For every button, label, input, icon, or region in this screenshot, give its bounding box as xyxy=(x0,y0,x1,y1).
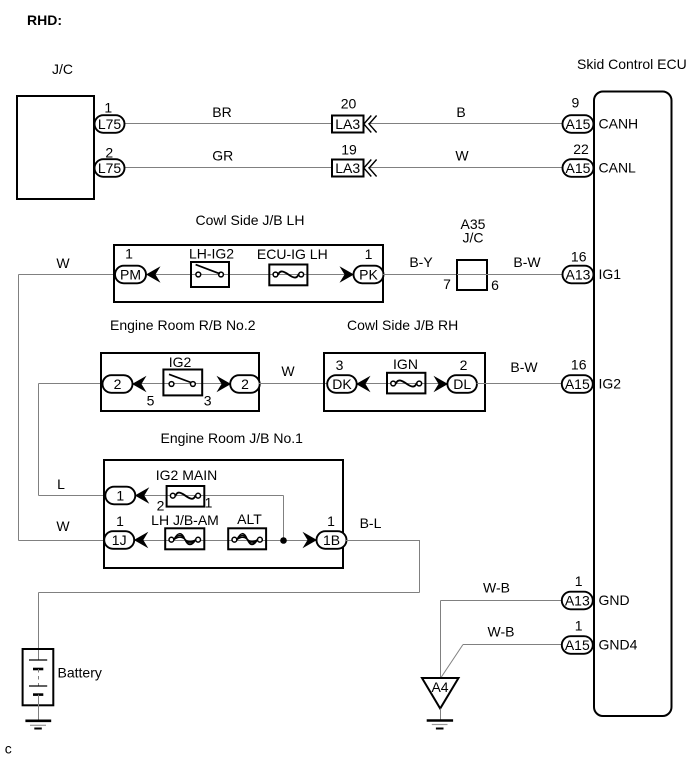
svg-text:ECU-IG LH: ECU-IG LH xyxy=(257,246,328,262)
pin number 1 (PM) xyxy=(125,246,133,262)
Engine Room J/B No.1 box xyxy=(104,460,343,568)
svg-text:22: 22 xyxy=(573,141,589,157)
wire B-Y (PK to A35) xyxy=(383,274,457,276)
fuse ECU-IG LH xyxy=(269,265,307,286)
title Cowl Side J/B LH xyxy=(196,212,305,228)
ECU terminal label GND xyxy=(599,592,630,608)
connector 1 (J/B No.1 row 1) xyxy=(105,487,135,505)
svg-text:PM: PM xyxy=(120,266,141,282)
wire label L xyxy=(57,476,65,492)
wire B-W (DL to A15) xyxy=(477,383,563,385)
label IG2 MAIN xyxy=(156,467,217,483)
wire W-B (A4 to A13 GND) xyxy=(441,601,563,678)
svg-text:1: 1 xyxy=(205,495,213,511)
svg-text:5: 5 xyxy=(147,393,155,409)
svg-text:A15: A15 xyxy=(566,116,591,132)
wire GR (L75 to LA3) CANL xyxy=(124,167,332,169)
Cowl Side J/B LH box xyxy=(114,245,383,302)
Cowl Side J/B RH box xyxy=(324,353,485,411)
svg-text:1: 1 xyxy=(365,246,373,262)
svg-text:GND: GND xyxy=(599,592,630,608)
pin number 1 (PK) xyxy=(365,246,373,262)
svg-text:1: 1 xyxy=(575,573,583,589)
svg-text:2: 2 xyxy=(105,145,113,161)
pin number 1 (1J) xyxy=(116,513,124,529)
svg-text:LA3: LA3 xyxy=(335,160,360,176)
battery plate long bottom xyxy=(29,685,47,687)
pin number 2 (L75) xyxy=(105,145,113,161)
junction connector A35 box xyxy=(457,260,487,290)
svg-text:9: 9 xyxy=(572,95,580,111)
pin number 1 (IG2 MAIN) xyxy=(205,495,213,511)
svg-text:RHD:: RHD: xyxy=(27,12,62,28)
wire W-B (A4 to A15 GND4) xyxy=(441,645,562,678)
arrow at connector 2 right xyxy=(217,376,232,393)
svg-text:GND4: GND4 xyxy=(599,637,638,653)
arrow at PK xyxy=(340,266,355,283)
wire inside Cowl Side J/B RH xyxy=(356,383,448,385)
title Engine Room R/B No.2 xyxy=(110,317,256,333)
arrow at 1B xyxy=(303,532,318,549)
wire label W-B (GND) xyxy=(483,580,510,596)
wire label B xyxy=(456,104,465,120)
title RHD: xyxy=(27,12,62,28)
wire B-L vertical down xyxy=(419,541,421,593)
ECU terminal label IG1 xyxy=(599,266,622,282)
connector A15 pin 1 GND4 xyxy=(562,636,593,654)
battery plate long top xyxy=(29,659,47,661)
wire inside J/B No.1 row 1 xyxy=(135,495,284,497)
battery ground symbol xyxy=(25,721,51,729)
fuse IG2 MAIN xyxy=(167,486,205,507)
svg-text:1: 1 xyxy=(104,100,112,116)
pin number 22 (A15) xyxy=(573,141,589,157)
ECU terminal label GND4 xyxy=(599,637,638,653)
connector 1J pin 1 xyxy=(104,531,134,549)
svg-text:DK: DK xyxy=(332,376,352,392)
wire A4 to ground xyxy=(440,709,442,721)
svg-text:IGN: IGN xyxy=(393,356,418,372)
pin number 1 (A13 GND) xyxy=(575,573,583,589)
arrow at connector 2 left xyxy=(132,376,147,393)
wire left vertical W xyxy=(18,275,20,541)
switch IG2 xyxy=(163,370,202,396)
wire label GR xyxy=(212,148,233,164)
ECU terminal label CANL xyxy=(599,160,637,176)
wire label W (to 1J) xyxy=(56,518,70,534)
svg-text:W: W xyxy=(455,148,469,164)
ground point A4 triangle xyxy=(422,678,459,709)
svg-text:16: 16 xyxy=(571,357,587,373)
svg-text:7: 7 xyxy=(443,276,451,292)
A4 ground symbol xyxy=(427,721,453,729)
fuse IGN xyxy=(387,373,425,394)
svg-text:W: W xyxy=(56,255,70,271)
pin number 9 (A15) xyxy=(572,95,580,111)
connector A15 pin 16 IG2 xyxy=(562,375,593,393)
pin number 2 (DL) xyxy=(460,357,468,373)
battery center dashed link xyxy=(38,669,40,686)
connector DK pin 3 xyxy=(327,375,357,393)
svg-text:W-B: W-B xyxy=(483,580,510,596)
pin number 1 (A15 GND4) xyxy=(575,618,583,634)
connector L75 pin 2 xyxy=(95,159,125,177)
svg-text:Cowl Side J/B RH: Cowl Side J/B RH xyxy=(347,317,458,333)
title Engine Room J/B No.1 xyxy=(161,430,304,446)
svg-text:ALT: ALT xyxy=(237,511,262,527)
svg-text:IG2: IG2 xyxy=(169,354,192,370)
connector 2 (left, R/B No.2) xyxy=(103,375,133,393)
wire inside Cowl Side J/B LH xyxy=(146,274,355,276)
pin number 7 (A35) xyxy=(443,276,451,292)
svg-text:1J: 1J xyxy=(112,532,127,548)
svg-text:A13: A13 xyxy=(565,592,590,608)
svg-text:J/C: J/C xyxy=(52,61,73,77)
svg-text:20: 20 xyxy=(341,96,357,112)
svg-text:c: c xyxy=(5,741,12,757)
connector DL pin 2 xyxy=(447,375,477,393)
svg-text:PK: PK xyxy=(359,266,378,282)
pin number 16 (A15 IG2) xyxy=(571,357,587,373)
connector L75 pin 1 xyxy=(95,115,125,133)
connector 1B pin 1 xyxy=(317,531,347,549)
label IGN xyxy=(393,356,418,372)
label ECU-IG LH xyxy=(257,246,328,262)
svg-text:A13: A13 xyxy=(566,266,591,282)
svg-text:L75: L75 xyxy=(98,160,122,176)
svg-text:Battery: Battery xyxy=(58,665,102,681)
svg-text:DL: DL xyxy=(453,376,471,392)
svg-text:1: 1 xyxy=(116,513,124,529)
svg-text:LH J/B-AM: LH J/B-AM xyxy=(151,512,219,528)
svg-text:J/C: J/C xyxy=(463,229,484,245)
svg-text:1B: 1B xyxy=(323,532,340,548)
page note c xyxy=(5,741,12,757)
svg-text:L75: L75 xyxy=(98,116,122,132)
svg-text:LH-IG2: LH-IG2 xyxy=(189,246,234,262)
svg-text:Skid Control ECU: Skid Control ECU xyxy=(577,56,687,72)
svg-text:16: 16 xyxy=(571,249,587,265)
wire B-W (A35 to A13) xyxy=(487,274,563,276)
pin number 16 (A13 IG1) xyxy=(571,249,587,265)
Skid Control ECU box xyxy=(594,92,672,717)
battery wire to ground xyxy=(38,695,40,721)
wire W (R/B No.2 to DK) xyxy=(259,383,328,385)
wire label W-B (GND4) xyxy=(488,624,515,640)
switch LH-IG2 xyxy=(191,262,229,287)
connector 2 (right, R/B No.2) xyxy=(230,375,260,393)
connector A13 pin 1 GND xyxy=(562,592,593,610)
fusible link LH J/B-AM xyxy=(165,528,204,549)
svg-text:BR: BR xyxy=(212,104,231,120)
svg-text:IG1: IG1 xyxy=(599,266,622,282)
connector A13 pin 16 IG1 xyxy=(563,266,594,284)
pin number 1 (L75) xyxy=(104,100,112,116)
svg-text:Cowl Side J/B LH: Cowl Side J/B LH xyxy=(196,212,305,228)
svg-text:1: 1 xyxy=(125,246,133,262)
connector A15 pin 22 CANL xyxy=(563,159,594,177)
svg-text:B-Y: B-Y xyxy=(409,254,433,270)
battery plate short thick top xyxy=(33,668,43,671)
wire label W (to PM) xyxy=(56,255,70,271)
Engine Room R/B No.2 box xyxy=(101,353,259,411)
pin number 3 (IG2 switch) xyxy=(204,393,212,409)
wire inside J/B No.1 row 2 xyxy=(134,540,317,542)
arrow at connector 1 xyxy=(135,487,150,504)
label ALT xyxy=(237,511,262,527)
svg-text:B: B xyxy=(456,104,465,120)
fusible link ALT xyxy=(228,528,266,549)
wire label W (CANL) xyxy=(455,148,469,164)
pin number 20 (LA3) xyxy=(341,96,357,112)
svg-text:6: 6 xyxy=(491,277,499,293)
svg-text:W: W xyxy=(56,518,70,534)
connector LA3 pin 19 xyxy=(332,160,364,177)
svg-text:GR: GR xyxy=(212,148,233,164)
shield chevrons LA3 pin 19 xyxy=(364,160,377,177)
arrow at DK xyxy=(356,376,371,393)
wire W (vertical to 2) xyxy=(39,384,104,496)
wire through A35 xyxy=(457,274,487,276)
pin number 3 (DK) xyxy=(336,357,344,373)
svg-text:W-B: W-B xyxy=(488,624,515,640)
junction dot xyxy=(280,537,287,544)
ECU terminal label IG2 xyxy=(599,376,622,392)
wire label B-Y xyxy=(409,254,433,270)
svg-text:Engine Room R/B No.2: Engine Room R/B No.2 xyxy=(110,317,256,333)
label Skid Control ECU xyxy=(577,56,687,72)
svg-text:19: 19 xyxy=(341,142,357,158)
svg-text:A15: A15 xyxy=(565,376,590,392)
wire label BR xyxy=(212,104,231,120)
svg-text:1: 1 xyxy=(116,487,124,503)
svg-text:A15: A15 xyxy=(565,637,590,653)
junction connector J/C box xyxy=(17,96,94,199)
wire label W (to DK) xyxy=(281,363,295,379)
pin number 2 (IG2 MAIN) xyxy=(157,498,165,514)
svg-text:LA3: LA3 xyxy=(335,116,360,132)
label IG2 (switch) xyxy=(169,354,192,370)
pin number 1 (1B) xyxy=(327,513,335,529)
ECU terminal label CANH xyxy=(599,116,639,132)
svg-text:1: 1 xyxy=(575,618,583,634)
svg-text:CANL: CANL xyxy=(599,160,637,176)
svg-text:3: 3 xyxy=(204,393,212,409)
wire inside Engine Room R/B No.2 xyxy=(132,383,231,385)
svg-text:A4: A4 xyxy=(431,679,448,695)
svg-text:A15: A15 xyxy=(566,160,591,176)
connector PM pin 1 xyxy=(115,266,146,284)
wire L (vertical to 1) xyxy=(39,495,106,497)
svg-text:B-W: B-W xyxy=(510,359,538,375)
svg-text:2: 2 xyxy=(241,376,249,392)
arrow at DL xyxy=(434,376,449,393)
svg-text:IG2 MAIN: IG2 MAIN xyxy=(156,467,217,483)
connector LA3 pin 20 xyxy=(332,116,364,133)
arrow at PM xyxy=(146,266,161,283)
wire W (left vertical to 1J) xyxy=(19,540,105,542)
arrow at 1J xyxy=(134,532,149,549)
svg-text:IG2: IG2 xyxy=(599,376,622,392)
label Battery xyxy=(58,665,102,681)
wire B-L (1B to corner) xyxy=(346,540,420,542)
svg-text:B-W: B-W xyxy=(513,254,541,270)
svg-text:B-L: B-L xyxy=(360,515,382,531)
shield chevrons LA3 pin 20 xyxy=(364,116,377,133)
battery plate short thick bottom xyxy=(33,693,43,696)
connector PK pin 1 xyxy=(354,266,384,284)
pin number 19 (LA3) xyxy=(341,142,357,158)
svg-text:1: 1 xyxy=(327,513,335,529)
svg-text:Engine Room J/B No.1: Engine Room J/B No.1 xyxy=(161,430,304,446)
svg-text:L: L xyxy=(57,476,65,492)
wire B-L down to battery xyxy=(38,593,40,661)
connector A15 pin 9 CANH xyxy=(563,115,594,133)
label LH-IG2 xyxy=(189,246,234,262)
wire label B-L xyxy=(360,515,382,531)
wire B (LA3 to A15) CANH xyxy=(368,123,563,125)
battery box xyxy=(23,649,54,705)
title Cowl Side J/B RH xyxy=(347,317,458,333)
junction connector A35 label xyxy=(461,216,486,245)
svg-text:2: 2 xyxy=(114,376,122,392)
svg-text:CANH: CANH xyxy=(599,116,639,132)
wire label B-W (IG1) xyxy=(513,254,541,270)
svg-text:2: 2 xyxy=(460,357,468,373)
pin number 6 (A35) xyxy=(491,277,499,293)
svg-text:W: W xyxy=(281,363,295,379)
pin number 5 xyxy=(147,393,155,409)
svg-text:3: 3 xyxy=(336,357,344,373)
wire W (LA3 to A15) CANL xyxy=(368,167,563,169)
wire label B-W (IG2) xyxy=(510,359,538,375)
wire W (left vertical to PM) xyxy=(19,274,116,276)
wire drop to junction xyxy=(283,496,285,541)
wire BR (L75 to LA3) CANH xyxy=(124,123,332,125)
label J/C (top-left junction connector) xyxy=(52,61,73,77)
wire B-L horizontal to battery xyxy=(39,592,420,594)
label LH J/B-AM xyxy=(151,512,219,528)
